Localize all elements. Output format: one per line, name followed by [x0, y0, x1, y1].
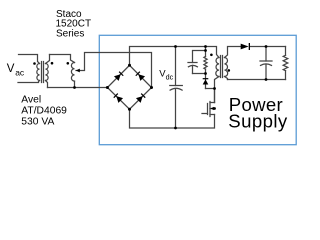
svg-text:AT/D4069: AT/D4069	[21, 106, 67, 117]
svg-text:Series: Series	[56, 29, 84, 40]
svg-text:dc: dc	[166, 73, 174, 82]
svg-text:Supply: Supply	[228, 110, 288, 131]
svg-text:V: V	[7, 63, 15, 75]
svg-text:530 VA: 530 VA	[21, 117, 54, 128]
svg-text:ac: ac	[15, 67, 25, 77]
svg-text:Avel: Avel	[21, 94, 41, 105]
